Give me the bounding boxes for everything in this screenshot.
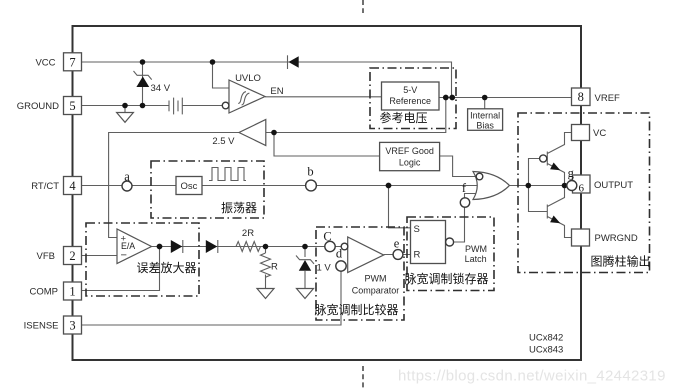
svg-text:UVLO: UVLO (235, 73, 261, 84)
svg-text:−: − (121, 250, 127, 262)
svg-text:e: e (394, 237, 400, 251)
svg-text:C: C (323, 230, 331, 244)
svg-text:Reference: Reference (389, 96, 431, 106)
svg-text:b: b (307, 165, 313, 179)
svg-text:VREF Good: VREF Good (385, 146, 434, 156)
svg-text:VC: VC (593, 128, 606, 139)
svg-text:a: a (124, 169, 130, 183)
svg-text:2: 2 (69, 249, 75, 263)
svg-text:1: 1 (69, 285, 75, 299)
svg-text:d: d (336, 247, 343, 261)
svg-text:g: g (568, 166, 575, 180)
svg-text:RT/CT: RT/CT (31, 181, 59, 192)
svg-text:PWRGND: PWRGND (595, 233, 638, 244)
svg-text:R: R (271, 262, 278, 273)
svg-text:GROUND: GROUND (17, 101, 59, 112)
svg-text:34 V: 34 V (151, 83, 171, 94)
svg-text:Bias: Bias (476, 120, 494, 130)
svg-text:VFB: VFB (37, 251, 55, 262)
svg-text:误差放大器: 误差放大器 (137, 260, 197, 275)
svg-text:VCC: VCC (35, 57, 55, 68)
svg-text:VREF: VREF (595, 93, 621, 104)
svg-text:Logic: Logic (399, 157, 421, 167)
svg-text:UCx843: UCx843 (529, 344, 563, 355)
svg-text:7: 7 (69, 55, 75, 69)
svg-text:5: 5 (69, 99, 75, 113)
svg-text:Internal: Internal (470, 111, 500, 121)
svg-text:2R: 2R (242, 228, 254, 239)
svg-text:6: 6 (579, 182, 585, 194)
svg-text:Osc: Osc (181, 181, 198, 192)
svg-text:参考电压: 参考电压 (380, 110, 428, 125)
svg-text:COMP: COMP (30, 287, 59, 298)
svg-text:EN: EN (270, 86, 283, 97)
svg-text:R: R (414, 250, 421, 261)
svg-text:OUTPUT: OUTPUT (594, 180, 633, 191)
svg-text:5-V: 5-V (403, 85, 417, 95)
svg-text:1 V: 1 V (317, 262, 332, 273)
svg-text:PWM: PWM (465, 244, 487, 254)
svg-text:脉宽调制比较器: 脉宽调制比较器 (315, 302, 399, 317)
svg-text:振荡器: 振荡器 (221, 201, 257, 215)
svg-text:4: 4 (69, 179, 76, 193)
svg-text:2.5 V: 2.5 V (212, 136, 235, 147)
svg-text:8: 8 (578, 90, 584, 104)
svg-text:https://blog.csdn.net/weixin_4: https://blog.csdn.net/weixin_42442319 (398, 368, 666, 385)
svg-text:图腾柱输出: 图腾柱输出 (591, 253, 651, 268)
svg-text:Latch: Latch (465, 254, 487, 264)
svg-text:脉宽调制锁存器: 脉宽调制锁存器 (405, 271, 489, 286)
svg-text:3: 3 (69, 319, 75, 333)
svg-text:Comparator: Comparator (352, 285, 400, 295)
svg-text:UCx842: UCx842 (529, 332, 563, 343)
svg-text:ISENSE: ISENSE (24, 321, 59, 332)
svg-text:PWM: PWM (365, 274, 387, 284)
svg-text:S: S (414, 224, 420, 235)
